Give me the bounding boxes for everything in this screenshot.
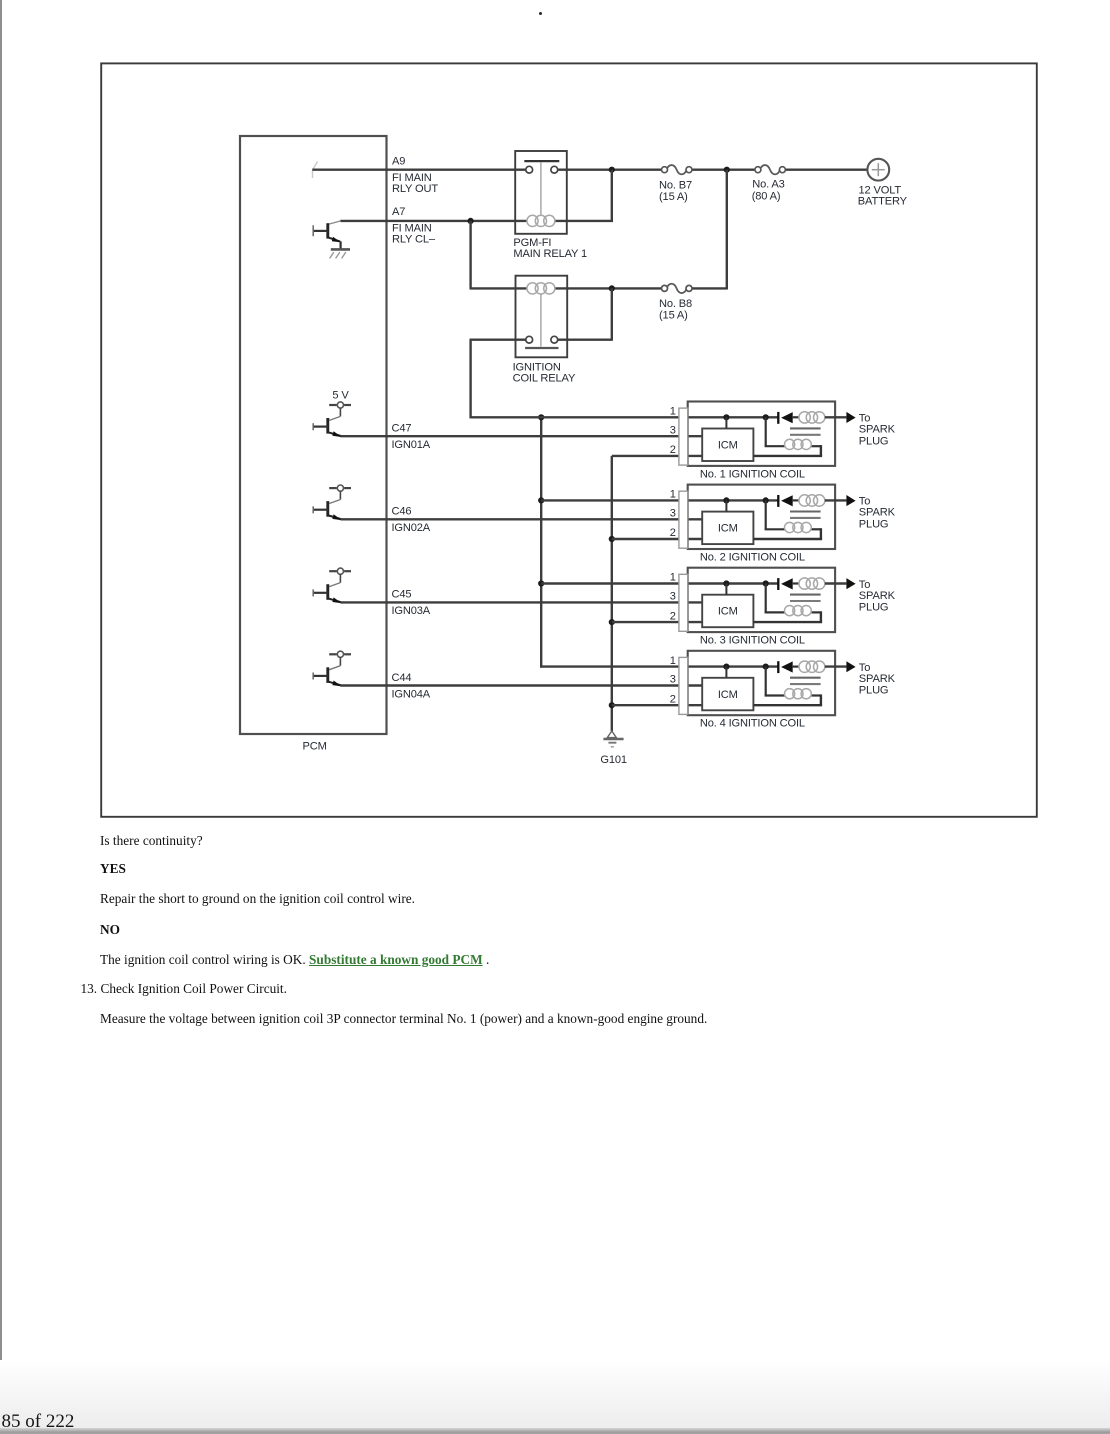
wire: ignition relay contact row [470, 339, 613, 341]
coil 2 internal wiring [723, 497, 822, 539]
relay PGM-FI MAIN RELAY 1 [515, 151, 567, 234]
svg-text:IGN02A: IGN02A [392, 522, 431, 534]
svg-text:3: 3 [670, 508, 676, 520]
svg-text:SPARK: SPARK [859, 424, 896, 436]
transformer T2 secondary winding [785, 522, 812, 532]
transformer T1 primary winding [799, 412, 825, 423]
wire riser: A7 junction down to ignition relay coil [469, 221, 471, 289]
svg-text:5 V: 5 V [332, 390, 349, 402]
diode D3 [778, 578, 799, 590]
svg-text:1: 1 [670, 489, 676, 501]
label fuse B8 [659, 298, 692, 321]
wire riser: relay output down to coil [611, 170, 613, 222]
wire: coil 1 pin 2 to ground bus [612, 455, 702, 457]
wire: coil 2 pin 2 to ground bus [612, 538, 702, 540]
label C46 IGN02A [392, 506, 431, 535]
transistor Q5 A7 driver [313, 221, 341, 249]
ICM U2 [702, 512, 753, 544]
svg-text:BATTERY: BATTERY [858, 195, 908, 207]
wire: fuse A3 to battery [785, 168, 867, 170]
svg-text:1: 1 [670, 655, 676, 667]
wire: PGM-FI relay coil to riser [555, 220, 613, 222]
wire riser: fuse junction down to fuse B8 [726, 170, 728, 290]
pin numbers coil 4 [670, 655, 676, 706]
transformer T4 secondary winding [785, 689, 812, 699]
svg-text:SPARK: SPARK [859, 673, 896, 685]
wire C45 IGN03A: PCM to ICM pin 3 [340, 601, 702, 603]
wire: relay contact to fuse B7 [558, 168, 662, 170]
svg-text:RLY CL–: RLY CL– [392, 233, 436, 245]
ground G101 [603, 731, 623, 747]
svg-text:1: 1 [670, 406, 676, 418]
wire: coil 3 HT output arrow [825, 578, 856, 589]
coil 1 internal wiring [723, 414, 822, 456]
svg-text:3: 3 [670, 424, 676, 436]
wire A7: PCM pin A7 to PGM-FI relay coil [340, 220, 527, 222]
diode D4 [778, 661, 799, 673]
wire C44 IGN04A: PCM to ICM pin 3 [340, 684, 702, 686]
wire: ignition feed to coil 2 pin 1 [541, 499, 778, 501]
label C47 IGN01A [392, 423, 431, 452]
svg-text:(15 A): (15 A) [659, 191, 688, 203]
svg-text:1: 1 [670, 572, 676, 584]
transformer T2 primary winding [799, 495, 825, 506]
diode D1 [778, 412, 799, 424]
svg-text:SPARK: SPARK [859, 507, 896, 519]
label 12 VOLT BATTERY [858, 184, 908, 207]
svg-text:No. B8: No. B8 [659, 298, 692, 310]
svg-text:ICM: ICM [718, 523, 738, 535]
coil 4 internal wiring [723, 664, 822, 706]
svg-text:No. 3 IGNITION COIL: No. 3 IGNITION COIL [700, 635, 805, 647]
wire C46 IGN02A: PCM to ICM pin 3 [340, 518, 702, 520]
diagram border frame [101, 63, 1037, 816]
text: question [100, 833, 203, 849]
wire riser: relay contact down to coil feed [469, 340, 471, 419]
wire: coil 4 HT output arrow [825, 661, 856, 672]
label fuse B7 [659, 180, 692, 203]
text: measure instruction [100, 1011, 707, 1027]
page bottom edge [0, 1428, 1110, 1434]
svg-text:PLUG: PLUG [859, 435, 889, 447]
svg-text:IGN04A: IGN04A [392, 688, 431, 700]
svg-text:No. B7: No. B7 [659, 180, 692, 192]
transformer T4 core [790, 678, 821, 684]
svg-text:A7: A7 [392, 206, 405, 218]
ICM U4 [702, 678, 753, 711]
transformer T1 secondary winding [785, 439, 812, 449]
transistor Q2 ignition driver C46 [313, 485, 351, 520]
label IGNITION COIL RELAY [513, 361, 576, 384]
text: repair instruction [100, 891, 415, 907]
text: step 13 [81, 981, 287, 997]
transistor Q1 ignition driver C47 [313, 402, 351, 437]
wire: ignition feed to coil 1 pin 1 [471, 416, 779, 418]
junction nodes on feed riser [538, 414, 544, 586]
wire: coil 4 pin 2 to ground bus [612, 704, 702, 706]
ICM U3 [702, 595, 753, 628]
svg-text:COIL RELAY: COIL RELAY [513, 373, 576, 385]
svg-text:IGN01A: IGN01A [392, 439, 431, 451]
transformer T4 primary winding [799, 661, 825, 672]
text: NO [100, 922, 120, 938]
svg-text:ICM: ICM [718, 689, 738, 701]
svg-text:No. 2 IGNITION COIL: No. 2 IGNITION COIL [700, 552, 805, 564]
ignition coil No. 4 block [679, 651, 835, 715]
junction node A7 branch [468, 218, 474, 224]
ignition coil No. 2 block [679, 485, 835, 549]
wire C47 IGN01A: PCM to ICM pin 3 [340, 435, 702, 437]
label C44 IGN04A [392, 672, 431, 701]
text: wiring OK + link [100, 952, 489, 968]
text: YES [100, 861, 126, 877]
junction node at fuse B7 / A3 [724, 167, 730, 173]
node A9 output tick [313, 162, 318, 179]
wire: coil 3 pin 2 to ground bus [612, 621, 702, 623]
transistor Q4 ignition driver C44 [313, 651, 351, 686]
label fuse A3 [752, 179, 785, 203]
svg-text:PLUG: PLUG [859, 685, 889, 697]
svg-text:C45: C45 [392, 589, 412, 601]
transformer T2 core [790, 512, 821, 518]
svg-text:No. 4 IGNITION COIL: No. 4 IGNITION COIL [700, 718, 805, 730]
stray dot top center [539, 12, 542, 15]
transformer T3 primary winding [799, 578, 825, 589]
svg-text:3: 3 [670, 674, 676, 686]
svg-text:2: 2 [670, 610, 676, 622]
svg-text:PLUG: PLUG [859, 519, 889, 531]
ignition coil No. 1 block [679, 402, 835, 466]
svg-text:2: 2 [670, 444, 676, 456]
wire: coil 1 HT output arrow [825, 412, 856, 423]
wire: ignition feed to coil 4 pin 1 [541, 665, 778, 667]
svg-text:PCM: PCM [303, 741, 327, 753]
svg-text:IGNITION: IGNITION [513, 361, 561, 373]
diode D2 [778, 495, 799, 507]
junction node on B8 wire [609, 285, 615, 291]
wire riser: B8 junction down to relay contact [611, 288, 613, 339]
junction nodes on ground riser [609, 536, 615, 708]
svg-text:ICM: ICM [718, 606, 738, 618]
fuse No. A3 (80 A) [0, 0, 785, 174]
svg-text:No. 1 IGNITION COIL: No. 1 IGNITION COIL [700, 468, 805, 480]
transformer T1 core [790, 428, 821, 434]
wire: fuse B7 to fuse A3 [692, 168, 755, 170]
svg-text:(15 A): (15 A) [659, 309, 688, 321]
label A9 [392, 156, 438, 195]
transistor Q3 ignition driver C45 [313, 568, 351, 603]
pin numbers coil 3 [670, 572, 676, 623]
svg-text:RLY OUT: RLY OUT [392, 183, 438, 195]
page left edge [0, 0, 2, 1434]
junction node at relay output [609, 167, 615, 173]
svg-text:C47: C47 [392, 423, 412, 435]
svg-text:2: 2 [670, 527, 676, 539]
svg-text:IGN03A: IGN03A [392, 605, 431, 617]
svg-text:C44: C44 [392, 672, 412, 684]
relay IGNITION COIL RELAY [516, 276, 568, 358]
wire bus: ground riser x612 to G101 [611, 456, 613, 731]
pin numbers coil 1 [670, 406, 676, 457]
label A7 [392, 206, 436, 245]
svg-text:PLUG: PLUG [859, 602, 889, 614]
fuse No. B7 (15 A) [0, 0, 692, 174]
transformer T3 core [790, 595, 821, 601]
coil 3 internal wiring [723, 580, 822, 622]
label To SPARK PLUG 2 [859, 496, 896, 531]
page bottom shading [0, 1360, 1110, 1428]
svg-text:ICM: ICM [718, 440, 738, 452]
svg-text:3: 3 [670, 591, 676, 603]
svg-text:MAIN RELAY 1: MAIN RELAY 1 [513, 248, 587, 260]
label To SPARK PLUG 4 [859, 662, 896, 697]
svg-text:SPARK: SPARK [859, 590, 896, 602]
ground (PCM internal, hatched) [330, 249, 350, 258]
svg-text:C46: C46 [392, 506, 412, 518]
svg-text:No. A3: No. A3 [752, 179, 784, 191]
wire: ignition relay coil row [470, 287, 727, 289]
ignition coil No. 3 block [679, 568, 835, 632]
label PGM-FI MAIN RELAY 1 [513, 237, 587, 260]
svg-text:A9: A9 [392, 156, 405, 168]
PCM block [240, 136, 387, 734]
page number [2, 1411, 75, 1433]
fuse No. B8 (15 A) [0, 0, 692, 293]
label C45 IGN03A [392, 589, 431, 618]
svg-text:(80 A): (80 A) [752, 190, 781, 202]
label To SPARK PLUG 1 [859, 413, 896, 448]
battery 12 V [867, 159, 889, 181]
wire: ignition feed to coil 3 pin 1 [541, 582, 778, 584]
svg-text:2: 2 [670, 693, 676, 705]
label To SPARK PLUG 3 [859, 579, 896, 614]
svg-text:G101: G101 [600, 754, 627, 766]
wire bus: ignition feed riser x541 [540, 417, 542, 667]
ICM U1 [702, 429, 753, 462]
pin numbers coil 2 [670, 489, 676, 540]
wire: coil 2 HT output arrow [825, 495, 856, 506]
transformer T3 secondary winding [785, 606, 812, 616]
wire A9: PCM pin A9 to relay contact [312, 168, 526, 170]
